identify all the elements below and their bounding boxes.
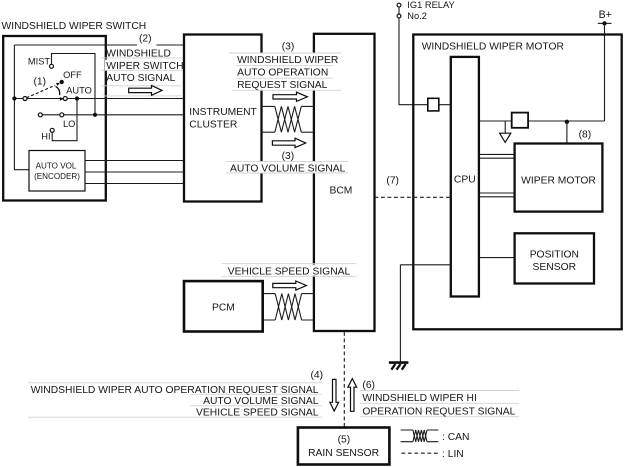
block arrow (3) upper [273,92,307,101]
CAN twisted pair upper: strand A [275,106,302,132]
svg-text:AUTO VOLUME SIGNAL: AUTO VOLUME SIGNAL [230,163,346,174]
label VEHICLE SPEED SIGNAL halo [227,265,352,276]
svg-text:WINDSHIELD WIPER: WINDSHIELD WIPER [237,55,338,66]
instrument cluster box [184,35,262,202]
node: wiper motor feed junction [565,120,569,124]
svg-text:WIPER MOTOR: WIPER MOTOR [521,175,596,186]
auto volume encoder box [29,151,85,192]
switch arm (dashed) [27,85,56,98]
signal text halo [105,60,185,71]
wire: HI branch loop [52,99,77,141]
svg-text:POSITION: POSITION [530,249,579,260]
band rules [101,58,184,96]
svg-text:(2): (2) [139,33,152,44]
windshield wiper motor box [413,35,621,330]
svg-text:AUTO OPERATION: AUTO OPERATION [237,67,328,78]
CAN twisted pair lower: strand B [275,294,301,320]
wire: B+ feed down then left to CPU [479,23,605,121]
rotation arrow arc [56,86,60,95]
wiper motor box [515,144,603,212]
block arrow (3) lower [272,138,305,147]
svg-text:(3): (3) [282,151,295,162]
legend LIN dashed sample [401,452,438,454]
svg-text:RAIN SENSOR: RAIN SENSOR [308,448,379,459]
B+ terminal bar [598,22,612,24]
svg-text:HI: HI [41,132,50,142]
svg-text:VEHICLE SPEED SIGNAL: VEHICLE SPEED SIGNAL [228,266,351,277]
svg-text:REQUEST SIGNAL: REQUEST SIGNAL [237,80,327,91]
svg-text:(3): (3) [282,42,295,53]
contact: LO left [38,113,42,117]
svg-text:WINDSHIELD WIPER HI: WINDSHIELD WIPER HI [362,393,476,404]
svg-text:AUTO SIGNAL: AUTO SIGNAL [106,73,175,84]
connector square on B+ wire [512,113,528,128]
CAN pair lower: stub wires [263,294,314,320]
request signal text halos [236,53,341,90]
legend CAN twisted pair strand A [413,430,427,442]
wire: CPU to position sensor [479,257,515,259]
svg-text:PCM: PCM [212,303,235,314]
node: LO/MIST junction [93,113,97,117]
wire: encoder line 1 [85,160,184,162]
contact: OFF (filled) [60,80,64,84]
legend CAN symbol stubs [401,430,439,442]
block arrow vehicle speed [273,281,307,290]
svg-text:OFF: OFF [63,70,82,80]
svg-text:(5): (5) [338,435,351,446]
svg-text:WINDSHIELD WIPER MOTOR: WINDSHIELD WIPER MOTOR [422,41,564,52]
svg-text:(1): (1) [34,77,47,88]
CAN twisted pair lower: strand A [275,294,301,320]
connector square on IG1 wire [428,98,439,111]
band rules [229,53,341,90]
PCM box [184,281,263,331]
svg-text:AUTO VOL: AUTO VOL [36,162,77,171]
CPU box [451,57,479,297]
wire: switch common top to instrument cluster [14,44,184,46]
wire: left bus vertical [14,45,29,170]
svg-text:: CAN: : CAN [442,432,469,443]
svg-text:CLUSTER: CLUSTER [189,119,237,130]
label (2) halo [137,31,157,47]
svg-text:INSTRUMENT: INSTRUMENT [189,107,257,118]
block arrow (2) [129,86,162,96]
svg-text:MIST: MIST [28,57,51,67]
CAN pair upper: stub wires [262,106,314,132]
band rules [360,391,519,417]
rain sensor box [298,428,390,465]
contact: MIST [50,64,54,68]
hollow down arrow (4) [330,379,339,411]
LIN dashed wire BCM to CPU [375,196,451,198]
band rules [222,264,357,277]
wire: between IG1 terminals [398,7,400,14]
contact: wiper pivot [23,97,27,101]
BCM box [314,34,375,331]
svg-text:(8): (8) [579,130,592,141]
terminal circle IG1 relay [397,3,401,7]
terminal circle No.2 [397,14,401,18]
legend CAN twisted pair strand B [413,430,427,442]
svg-text:VEHICLE SPEED SIGNAL: VEHICLE SPEED SIGNAL [196,407,319,418]
wire: CPU to wiper motor pair 1 [479,154,515,158]
hollow up arrow (6) [348,379,357,412]
windshield wiper switch box [3,36,106,201]
svg-text:WINDSHIELD WIPER AUTO OPERATIO: WINDSHIELD WIPER AUTO OPERATION REQUEST … [31,385,319,396]
node: B+ junction [602,21,606,25]
wire: CPU to wiper motor pair 2 [479,193,515,197]
svg-text:BCM: BCM [330,185,353,196]
label (3) lower halo [278,150,297,160]
label (3) upper halo [279,41,298,51]
ground [389,361,409,364]
LIN dashed wire BCM to rain sensor [343,332,345,427]
contact: LO right [60,113,64,117]
svg-text:(6): (6) [362,380,375,391]
svg-text:SENSOR: SENSOR [533,262,577,273]
svg-text:OPERATION REQUEST SIGNAL: OPERATION REQUEST SIGNAL [362,406,515,417]
wire: CPU to ground [400,265,450,362]
wire: IG1 feed down and into CPU [399,18,451,105]
position sensor box [515,233,594,283]
wire: junction down to wiper motor [566,121,568,144]
wire: encoder line 3 [85,183,184,185]
label AUTO VOLUME SIGNAL halo [229,162,347,173]
svg-text:(4): (4) [311,370,324,381]
band rules [28,383,322,417]
svg-text:(7): (7) [386,175,399,186]
svg-text:(ENCODER): (ENCODER) [34,172,80,181]
wire: encoder line 2 [85,171,184,173]
svg-text:CPU: CPU [454,175,476,186]
switch arm arrowhead [56,83,60,86]
svg-text:AUTO: AUTO [66,86,92,96]
svg-text:WINDSHIELD WIPER SWITCH: WINDSHIELD WIPER SWITCH [2,21,147,32]
svg-text:No.2: No.2 [407,11,427,21]
wire: MIST branch [52,54,96,115]
CAN twisted pair upper: strand B [275,106,302,132]
svg-text:IG1 RELAY: IG1 RELAY [407,0,454,10]
rotation arrow head [60,97,64,101]
node: common-row left junction [12,96,16,100]
band rules [226,161,348,173]
wire: LO row to instrument cluster [40,114,184,116]
svg-text:LO: LO [63,119,75,129]
contact: HI [50,128,54,132]
svg-text:: LIN: : LIN [442,449,464,460]
node: AUTO row junction [75,96,79,100]
wire: wiper common row to instrument cluster [14,98,184,100]
contact: AUTO [63,97,67,101]
svg-text:AUTO VOLUME SIGNAL: AUTO VOLUME SIGNAL [203,396,319,407]
hollow down arrow on motor feed [504,121,506,133]
svg-text:B+: B+ [599,9,612,21]
